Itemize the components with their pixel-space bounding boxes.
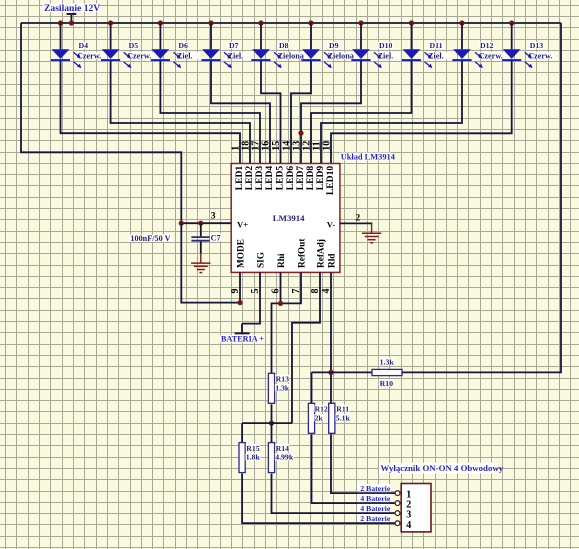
- wire Rhi pin 6 lead: [280, 272, 282, 303]
- svg-text:3: 3: [211, 211, 216, 222]
- svg-text:C7: C7: [211, 233, 221, 242]
- wire D10 anode lead: [360, 23, 362, 49]
- ground (V-): [362, 223, 381, 242]
- wire R15 bottom to connector pin 4: [242, 474, 395, 524]
- label R13: [275, 375, 289, 383]
- junction bus / D6 anode: [158, 20, 163, 25]
- wire D7 cathode to IC pin 16: [211, 61, 270, 164]
- svg-text:R14: R14: [276, 444, 290, 453]
- junction bus / D11 anode: [409, 20, 414, 25]
- junction V+ node: [179, 221, 184, 226]
- svg-text:Zielona: Zielona: [328, 51, 354, 60]
- LED D9 (Zielona): [301, 41, 358, 68]
- junction bus / D10 anode: [358, 20, 363, 25]
- wire MODE pin 9 lead: [239, 272, 241, 302]
- wire D11 cathode to IC pin 12: [311, 61, 412, 164]
- svg-text:Rhi: Rhi: [277, 253, 287, 268]
- svg-text:D12: D12: [480, 41, 494, 50]
- svg-text:2: 2: [355, 213, 360, 224]
- wire RefAdj pin 8 to node: [292, 272, 320, 423]
- label R14: [275, 444, 289, 452]
- svg-text:1.3k: 1.3k: [275, 383, 290, 392]
- svg-text:1.8k: 1.8k: [246, 453, 261, 462]
- label R11: [336, 405, 350, 413]
- svg-text:Rld: Rld: [328, 253, 338, 268]
- LED D6 (Ziel.): [151, 41, 200, 68]
- wire D4 anode lead: [60, 23, 62, 49]
- svg-text:Zasilanie 12V: Zasilanie 12V: [44, 3, 100, 14]
- junction pin 13 wire: [298, 131, 303, 136]
- junction Rhi/RefOut: [278, 301, 283, 306]
- label 1.8k (R15): [245, 453, 260, 460]
- LED D12 (Czerw.): [452, 41, 505, 68]
- wire V- (pin 2): [340, 222, 372, 224]
- label 2k (R12): [314, 414, 323, 421]
- label R10: [379, 379, 393, 387]
- wire node horizontal: [242, 422, 292, 424]
- wire V+ to MODE: [181, 223, 240, 302]
- svg-text:D7: D7: [229, 41, 239, 50]
- wire bus left drop: [21, 23, 181, 223]
- wire D12 anode lead: [461, 23, 463, 49]
- LED D7 (Ziel.): [201, 41, 250, 68]
- junction bus / power stem: [69, 20, 74, 25]
- svg-text:2 Baterie: 2 Baterie: [360, 484, 391, 493]
- svg-text:D10: D10: [379, 41, 393, 50]
- wire D5 cathode to IC pin 18: [111, 61, 250, 164]
- power port BATERIA +: [220, 324, 264, 344]
- svg-text:100nF/50 V: 100nF/50 V: [130, 234, 170, 243]
- label C7: [210, 233, 222, 241]
- LED D8 (Zielona): [251, 41, 308, 68]
- capacitor C7: [191, 237, 209, 241]
- wire R15 top lead: [241, 423, 243, 443]
- wire D13 anode lead: [511, 23, 513, 49]
- LED D11 (Ziel.): [402, 41, 451, 68]
- svg-text:D9: D9: [329, 41, 339, 50]
- resistor R13: [268, 373, 274, 403]
- junction bus / D8 anode: [258, 20, 263, 25]
- svg-text:Zielona: Zielona: [278, 51, 304, 60]
- power port Zasilanie 12V: [43, 3, 101, 23]
- LED D5 (Czerw.): [101, 41, 154, 68]
- wire R10 to +12V bus (right side): [402, 23, 561, 372]
- svg-text:RefAdj: RefAdj: [317, 239, 327, 268]
- svg-text:LED4: LED4: [264, 166, 275, 191]
- connector J1 body: [401, 484, 431, 532]
- svg-text:4: 4: [406, 520, 411, 531]
- junction bus / D12 anode: [459, 20, 464, 25]
- svg-text:16: 16: [261, 141, 272, 151]
- connector pin 2: [395, 501, 400, 506]
- label 5.1k (R11): [335, 414, 350, 421]
- svg-text:D4: D4: [79, 41, 89, 50]
- svg-text:MODE: MODE: [237, 239, 247, 268]
- wire D4 cathode to IC pin 1: [61, 61, 241, 164]
- svg-text:R10: R10: [380, 379, 394, 388]
- LED D10 (Ziel.): [351, 41, 400, 68]
- wire R12 top lead: [311, 372, 313, 403]
- svg-text:LM3914: LM3914: [273, 213, 305, 223]
- wire D6 cathode to IC pin 17: [160, 61, 260, 164]
- svg-text:R13: R13: [276, 375, 290, 384]
- junction bus / D13 anode: [509, 20, 514, 25]
- svg-text:BATERIA +: BATERIA +: [221, 335, 264, 344]
- svg-text:SIG: SIG: [257, 252, 267, 268]
- wire D7 anode lead: [210, 23, 212, 49]
- resistor R11: [329, 403, 335, 433]
- wire D12 cathode to IC pin 11: [321, 61, 462, 164]
- wire D13 cathode to IC pin 10: [331, 61, 512, 164]
- svg-text:1.3k: 1.3k: [380, 357, 395, 366]
- wire Rld pin 4 to R11: [330, 272, 332, 403]
- junction bus / D5 anode: [108, 20, 113, 25]
- svg-text:R15: R15: [246, 444, 260, 453]
- svg-text:Czerw.: Czerw.: [77, 51, 101, 60]
- svg-text:Układ LM3914: Układ LM3914: [341, 152, 396, 161]
- svg-text:D13: D13: [530, 41, 544, 50]
- connector pin 3: [395, 511, 400, 516]
- svg-text:4 Baterie: 4 Baterie: [360, 494, 391, 503]
- junction bus / D7 anode: [208, 20, 213, 25]
- svg-text:10: 10: [322, 141, 333, 151]
- wire +12V bus: [21, 22, 561, 24]
- label 100nF/50 V: [129, 235, 172, 242]
- junction C7 / V+: [198, 221, 203, 226]
- svg-text:LED5: LED5: [275, 166, 286, 191]
- wire D10 cathode to IC pin 13: [301, 61, 361, 164]
- svg-text:Wyłącznik ON-ON 4 Obwodowy: Wyłącznik ON-ON 4 Obwodowy: [381, 463, 504, 473]
- resistor R14: [268, 443, 274, 473]
- label R12: [314, 405, 327, 412]
- label Wylacznik ON-ON 4 Obwodowy: [379, 463, 496, 474]
- wire SIG pin 5: [242, 272, 260, 323]
- svg-text:Czerw.: Czerw.: [127, 51, 151, 60]
- label 2 Baterie (pin 4): [358, 514, 391, 522]
- svg-text:D6: D6: [178, 41, 188, 50]
- label 4 Baterie (pin 3): [358, 504, 391, 512]
- ground (C7): [191, 253, 210, 272]
- wire D9 cathode to IC pin 14: [291, 61, 311, 164]
- LED D4 (Czerw.): [51, 41, 104, 68]
- wire D8 cathode to IC pin 15: [261, 61, 281, 164]
- wire D8 anode lead: [260, 23, 262, 49]
- wire C7 bottom lead: [200, 242, 202, 254]
- resistor R15: [239, 443, 245, 473]
- svg-text:5.1k: 5.1k: [336, 413, 351, 422]
- junction bus / D9 anode: [308, 20, 313, 25]
- wire D11 anode lead: [411, 23, 413, 49]
- junction bus / D4 anode: [58, 20, 63, 25]
- svg-text:V-: V-: [327, 220, 336, 230]
- connector pin 4: [395, 521, 400, 526]
- wire D9 anode lead: [310, 23, 312, 49]
- junction R13/R14/R15/RefAdj: [269, 421, 274, 426]
- svg-text:RefOut: RefOut: [298, 238, 308, 268]
- svg-text:2 Baterie: 2 Baterie: [360, 514, 391, 523]
- wire D5 anode lead: [110, 23, 112, 49]
- svg-text:15: 15: [271, 141, 282, 151]
- label Uklad LM3914: [339, 153, 391, 161]
- wire R13 bottom lead: [271, 404, 273, 423]
- connector pin 1: [395, 491, 400, 496]
- wire R10 node horizontal: [312, 371, 373, 373]
- svg-text:D11: D11: [430, 41, 443, 50]
- svg-text:LED10: LED10: [325, 166, 336, 196]
- svg-text:2k: 2k: [315, 413, 324, 422]
- svg-text:R11: R11: [336, 405, 349, 414]
- wire C7 top lead: [200, 223, 202, 236]
- resistor R10: [372, 369, 402, 375]
- svg-text:4 Baterie: 4 Baterie: [360, 504, 391, 513]
- svg-text:Czerw.: Czerw.: [479, 51, 503, 60]
- junction Rld / R10 line: [328, 370, 333, 375]
- label 1.3k (R10): [379, 358, 394, 365]
- label 4 Baterie (pin 2): [358, 494, 391, 502]
- wire R11 bottom to connector pin 1: [331, 434, 395, 493]
- svg-text:D8: D8: [279, 41, 289, 50]
- junction MODE node: [237, 300, 242, 305]
- wire RefOut pin 7 to R13: [272, 272, 302, 373]
- wire R14 top lead: [271, 423, 273, 443]
- svg-text:R12: R12: [315, 405, 328, 414]
- svg-text:D5: D5: [129, 41, 139, 50]
- svg-text:4.99k: 4.99k: [275, 453, 294, 462]
- resistor R12: [308, 403, 314, 433]
- wire V+ (pin 3): [181, 222, 231, 224]
- wire R14 bottom to connector pin 3: [272, 474, 395, 513]
- LED D13 (Czerw.): [502, 41, 555, 68]
- label 4.99k (R14): [275, 453, 294, 460]
- svg-text:Czerw.: Czerw.: [528, 51, 552, 60]
- wire R12 bottom to connector pin 2: [312, 434, 395, 503]
- op-amp / IC U1 LM3914 body: [231, 164, 340, 273]
- svg-text:V+: V+: [237, 220, 248, 230]
- label 1.3k (R13): [275, 384, 290, 391]
- label 2 Baterie (pin 1): [358, 484, 391, 492]
- label R15: [246, 444, 260, 452]
- wire D6 anode lead: [159, 23, 161, 49]
